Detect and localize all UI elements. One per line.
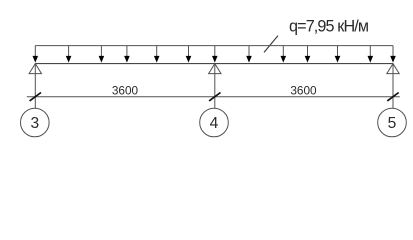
load arrow 8 [246,46,252,63]
dim tick at 3 [30,93,41,101]
axis line 4 [214,64,216,109]
dimension line [27,96,400,98]
axis circle 4 [200,108,229,137]
load arrow 9 [281,46,287,63]
load arrow 2 [66,46,72,63]
axis circle 3 [21,108,50,137]
axis line 5 [392,64,394,109]
support 4 (pin) [209,64,221,74]
svg-text:3600: 3600 [112,84,139,98]
dim tick at 4 [209,93,220,101]
axis circle 5 [378,108,407,137]
distributed load top line [35,45,393,47]
load arrow 3 [99,46,105,63]
leader slash to load line [264,36,278,53]
axis line 3 [34,64,36,109]
load arrow 7 [212,46,218,63]
load arrow 4 [124,46,130,63]
load arrow 13 [390,46,396,63]
beam 3-5 [35,63,393,65]
svg-text:3600: 3600 [290,84,317,98]
dim tick at 5 [387,93,398,101]
load arrow 11 [335,46,341,63]
svg-text:3: 3 [30,115,39,132]
support 5 (pin) [387,64,399,74]
svg-text:q=7,95 кН/м: q=7,95 кН/м [289,17,369,35]
load arrow 5 [154,46,160,63]
load arrow 1 [33,46,39,63]
load arrow 6 [186,46,192,63]
svg-text:5: 5 [388,115,397,132]
load arrow 10 [305,46,311,63]
load arrow 12 [368,46,374,63]
svg-text:4: 4 [210,115,219,132]
support 3 (pin) [29,64,41,74]
